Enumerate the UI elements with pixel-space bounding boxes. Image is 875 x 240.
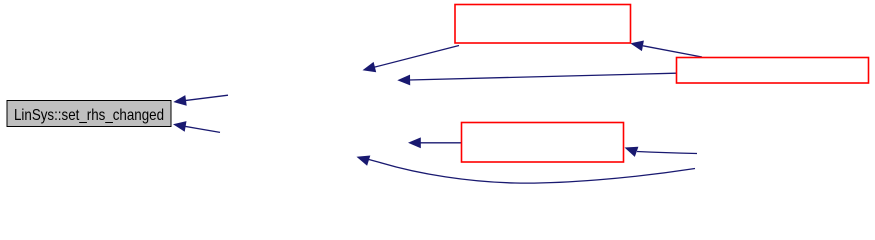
svg-text:LinSys::set_rhs_changed: LinSys::set_rhs_changed: [14, 107, 164, 124]
